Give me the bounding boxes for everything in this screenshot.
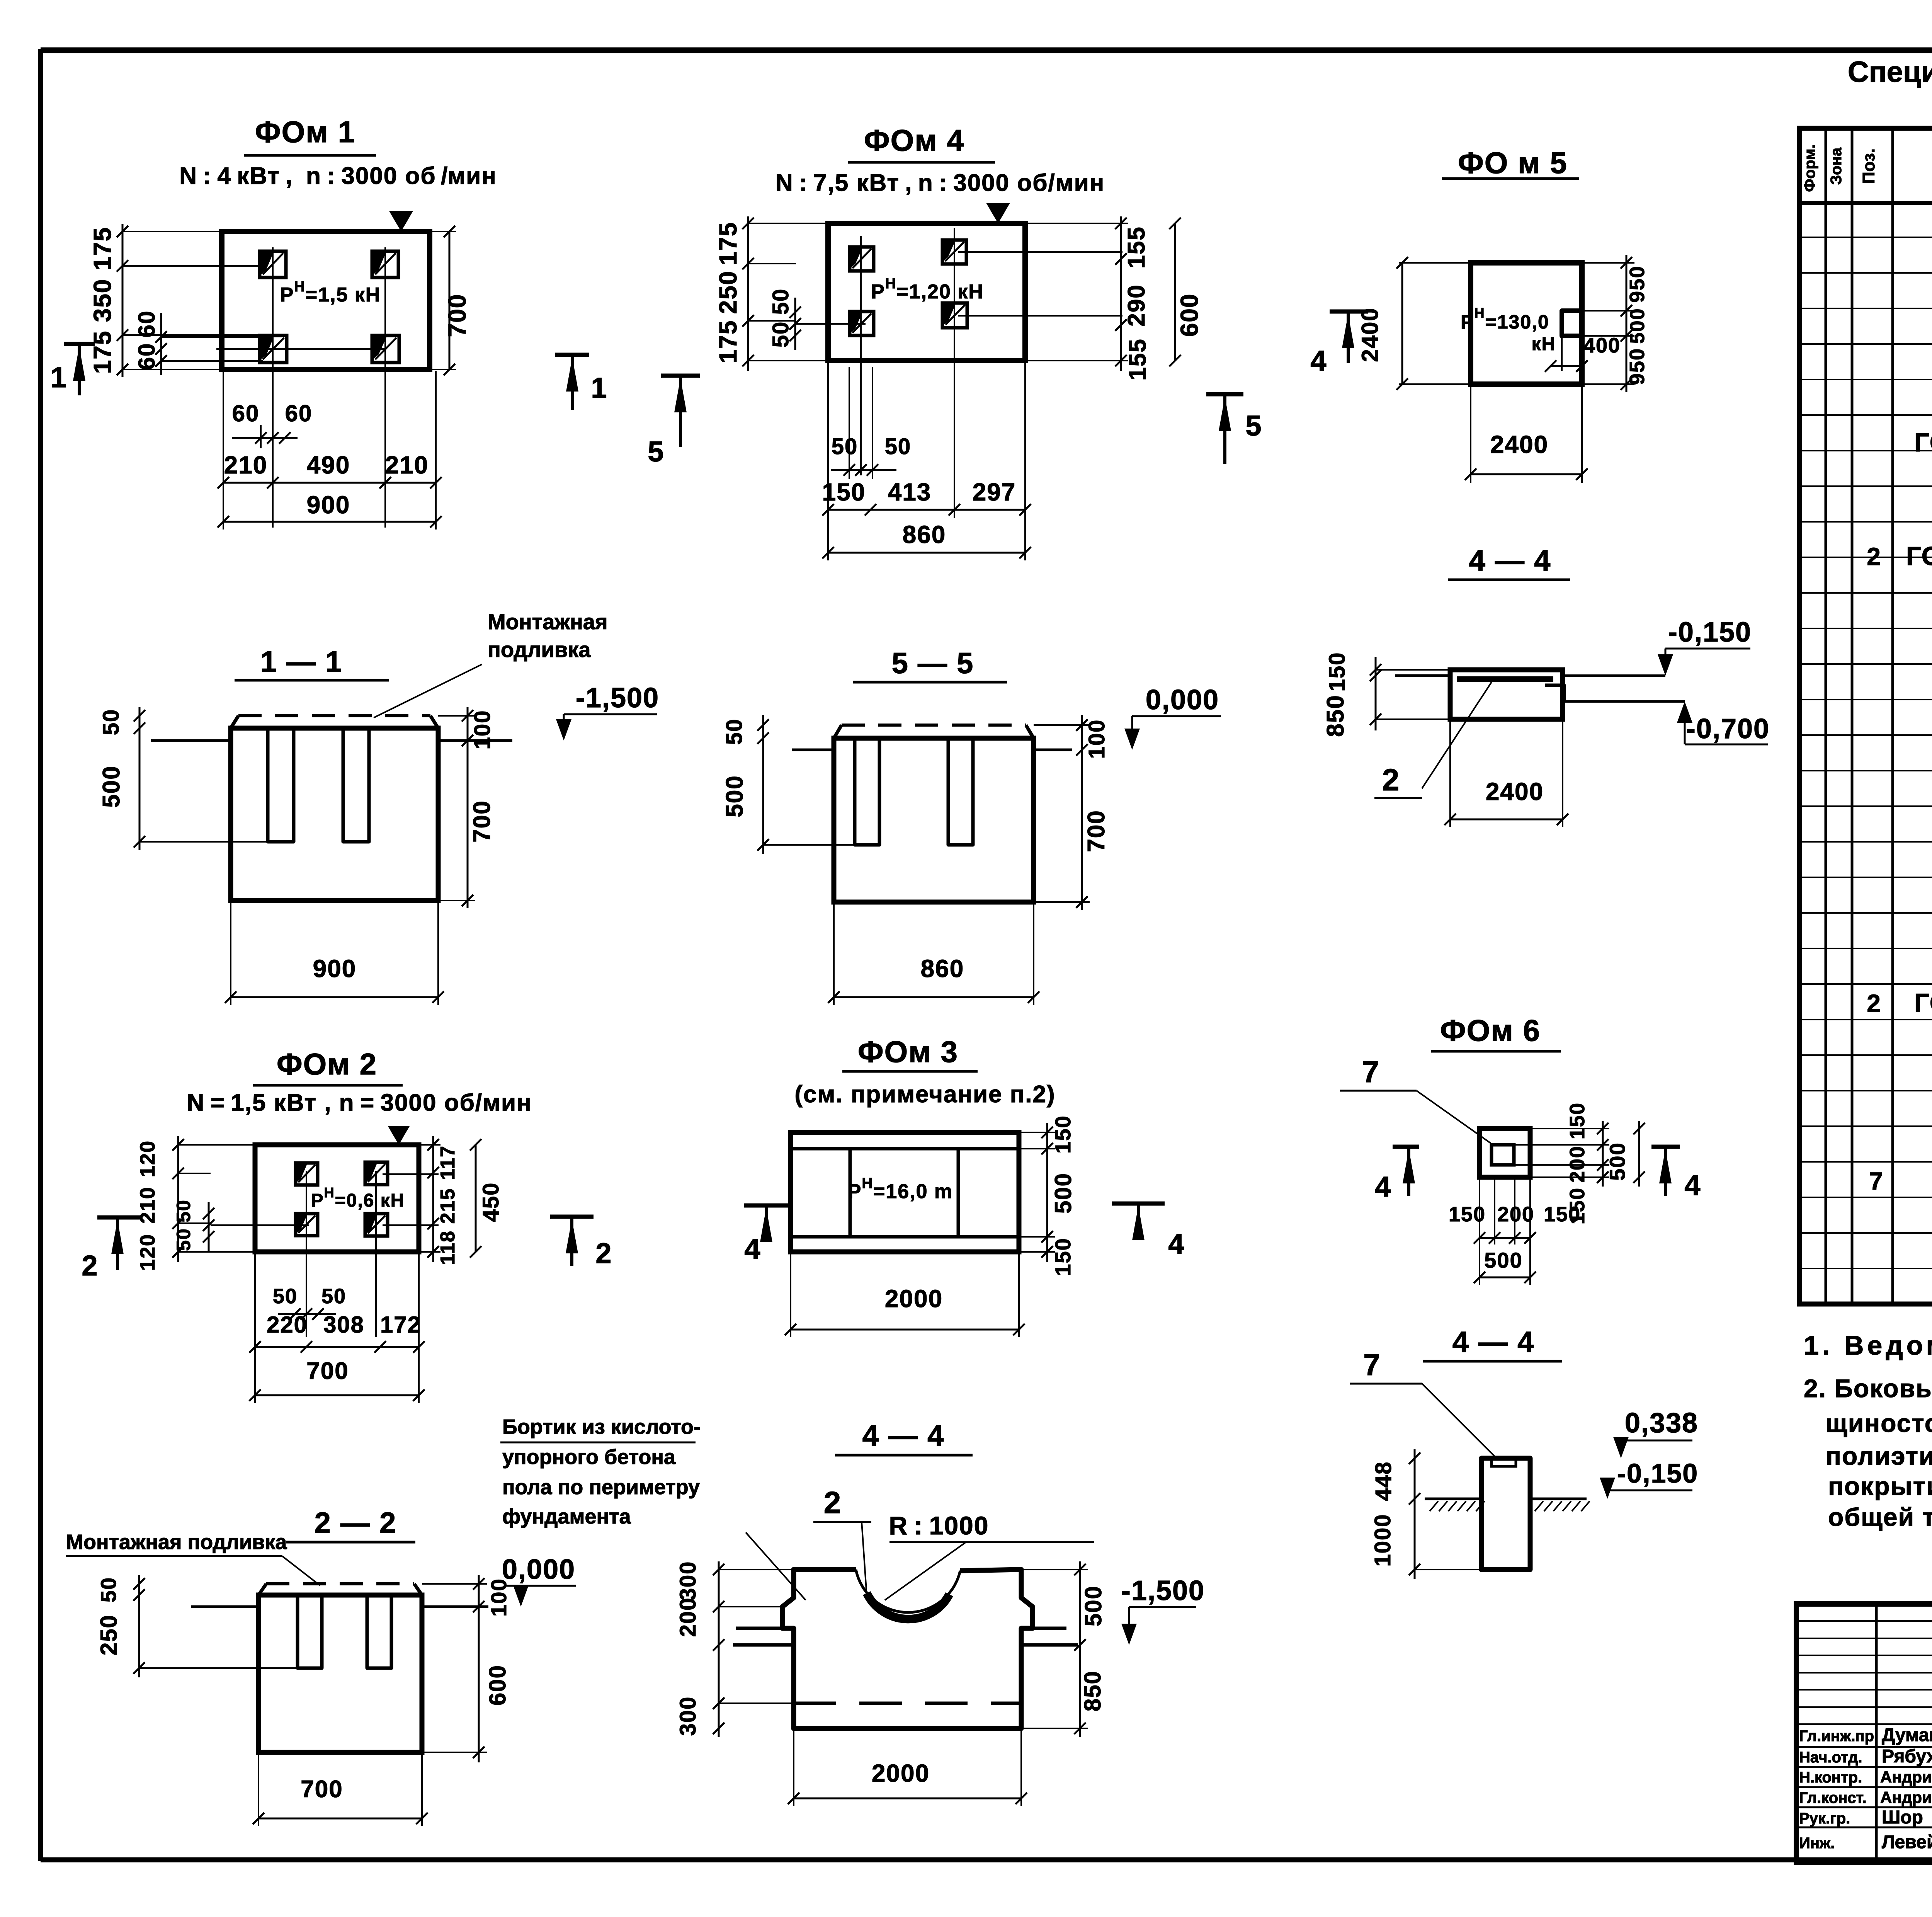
svg-text:175: 175 (714, 222, 742, 266)
right dimension 600 FOm4 (1169, 218, 1203, 366)
left dims 448/1000 FOm6 (1370, 1449, 1481, 1579)
plan FOm3 outline (791, 1132, 1019, 1252)
level triangle marker FOm4 (986, 203, 1010, 223)
section mark 1 right (555, 355, 608, 410)
left dims 50/500 section 5-5 (721, 715, 855, 854)
svg-text:500: 500 (1080, 1585, 1106, 1626)
svg-text:300: 300 (675, 1561, 701, 1601)
section mark 5 left (648, 376, 700, 468)
svg-text:Думан: Думан (1882, 1725, 1932, 1745)
plan FOm2 slab outline (255, 1145, 419, 1252)
svg-text:Шор: Шор (1882, 1807, 1923, 1828)
section mark 4 left FOm3 (744, 1205, 791, 1265)
svg-text:щиностойким покрытием на ос: щиностойким покрытием на основе хлорсуль… (1826, 1409, 1932, 1437)
anchor slots section 5-5 (855, 738, 973, 845)
svg-text:150: 150 (1051, 1115, 1075, 1153)
svg-text:850: 850 (1080, 1670, 1105, 1711)
svg-text:100: 100 (1084, 719, 1109, 759)
title section 5-5 (853, 647, 1007, 682)
spec rows FOm3 (1867, 466, 1932, 692)
svg-text:7: 7 (1363, 1348, 1381, 1382)
ground line section 5-5 (792, 749, 1072, 751)
right dims 100/600 section 2-2 (422, 1575, 511, 1762)
svg-text:60: 60 (134, 343, 160, 370)
left dimension chain FOm1 175/350/175 (88, 224, 263, 377)
left dimension 2400 FOm5 (1357, 257, 1471, 390)
right dims 150/200/150 FOm6 (1514, 1102, 1609, 1224)
svg-text:Бортик из кислото-: Бортик из кислото- (502, 1415, 701, 1439)
spec table grid (1799, 128, 1932, 1304)
notch on right edge FOm5 (1562, 311, 1582, 336)
svg-text:5: 5 (1245, 410, 1262, 442)
section mark 2 left (82, 1217, 142, 1282)
anchor slots section 2-2 (298, 1595, 391, 1668)
svg-text:N = 1,5 кВт , n = 3000 об/мин: N = 1,5 кВт , n = 3000 об/мин (187, 1090, 532, 1116)
svg-text:ФОм 3: ФОм 3 (858, 1035, 958, 1069)
section mark 1 left (50, 344, 95, 395)
svg-text:155: 155 (1123, 226, 1150, 268)
load label FOm1 (280, 279, 381, 306)
level mark 0.338 FOm6 (1613, 1408, 1698, 1458)
svg-text:150: 150 (1325, 652, 1350, 692)
ground hatch section FOm6 (1425, 1499, 1590, 1511)
title block signature rows texts (1799, 1725, 1932, 1852)
left dimension chain FOm4 175/250/175 (714, 216, 828, 371)
bottom chain 210/490/210 FOm1 (218, 451, 442, 489)
plan FOm1 slab outline (222, 232, 430, 369)
callout 7 FOm6 plan (1340, 1055, 1491, 1143)
svg-text:Н.контр.: Н.контр. (1799, 1769, 1862, 1786)
bottom dimension 50/50 FOm4 (831, 367, 911, 479)
svg-text:290: 290 (1123, 284, 1150, 326)
section mark 4 left of FOm5 (1310, 312, 1368, 377)
svg-text:покрытие - 4 слоя эмали ХСПЭ: покрытие - 4 слоя эмали ХСПЭ-Ж , (1828, 1472, 1932, 1500)
svg-text:2400: 2400 (1490, 431, 1548, 458)
left dims 50/500 section 1-1 (98, 707, 268, 850)
svg-text:150: 150 (1544, 1203, 1581, 1226)
svg-text:413: 413 (888, 478, 932, 506)
svg-text:2. Боковые поверхности фОм3: 2. Боковые поверхности фОм3 покрываются … (1804, 1374, 1932, 1403)
title FOm2 (187, 1047, 532, 1116)
svg-text:1: 1 (591, 372, 607, 404)
bottom dim 860 section 5-5 (828, 904, 1039, 1005)
svg-text:50: 50 (273, 1285, 298, 1308)
plan FOm5 slab outline (1471, 263, 1582, 384)
svg-text:2000: 2000 (885, 1285, 943, 1313)
svg-text:950: 950 (1626, 348, 1649, 385)
svg-text:1. Ведомость расхода стали: 1. Ведомость расхода стали дана на листе… (1804, 1330, 1932, 1360)
inner dimension 60/60 FOm1 left (134, 310, 263, 375)
level mark 0.000 section 5-5 (1124, 684, 1221, 750)
svg-text:155: 155 (1124, 338, 1151, 380)
right dimension 700 FOm1 (430, 226, 471, 375)
title FOm1 (179, 115, 497, 189)
svg-text:ФОм 2: ФОм 2 (277, 1047, 377, 1081)
ground line section 2-2 (191, 1605, 488, 1608)
svg-text:2: 2 (1867, 989, 1881, 1017)
left dims 50/250 section 2-2 (96, 1575, 298, 1677)
title FOm3 (794, 1035, 1055, 1108)
svg-text:Поз.: Поз. (1859, 148, 1878, 184)
svg-text:200: 200 (1566, 1146, 1589, 1183)
svg-text:2: 2 (1867, 543, 1881, 570)
svg-text:0,338: 0,338 (1625, 1408, 1698, 1439)
svg-text:5: 5 (648, 436, 664, 468)
note bortik iz kisloto-upornogo betona (500, 1415, 806, 1600)
right dimension chain FOm3 150/500/150 (1019, 1115, 1076, 1276)
svg-text:2000: 2000 (872, 1759, 930, 1787)
right dimension chain FOm2 117/215/118 (419, 1136, 459, 1265)
title FOm6 (1431, 1013, 1561, 1051)
svg-text:ФОм 6: ФОм 6 (1440, 1013, 1541, 1047)
spec table header texts (1801, 144, 1932, 192)
right dims 100/700 section 5-5 (1034, 715, 1110, 910)
title section 4-4 FOm5 (1448, 544, 1570, 580)
svg-text:60: 60 (134, 310, 160, 338)
svg-text:ФО м 5: ФО м 5 (1458, 146, 1568, 180)
svg-text:215: 215 (437, 1188, 459, 1224)
title block outer frame (1796, 1604, 1932, 1863)
svg-text:(см. примечание п.2): (см. примечание п.2) (794, 1081, 1055, 1108)
svg-text:175: 175 (88, 227, 116, 271)
bottom dimension 60/60 FOm1 (232, 400, 312, 448)
svg-text:Андриевская: Андриевская (1880, 1788, 1932, 1806)
FOm6 pier plan squares (1480, 1129, 1530, 1177)
svg-text:Форм.: Форм. (1801, 144, 1818, 192)
load label FOm3 (848, 1175, 953, 1203)
svg-text:450: 450 (478, 1182, 503, 1222)
level mark -1.500 section 1-1 (556, 683, 659, 741)
svg-text:-1,500: -1,500 (576, 683, 659, 713)
title section 1-1 (235, 645, 389, 680)
svg-text:50: 50 (173, 1199, 194, 1222)
svg-text:500: 500 (1050, 1173, 1076, 1214)
svg-text:4 — 4: 4 — 4 (1452, 1326, 1535, 1359)
section 5-5 foundation outline (834, 725, 1034, 902)
svg-text:N : 7,5 кВт , n : 3000 об/мин: N : 7,5 кВт , n : 3000 об/мин (776, 170, 1105, 196)
svg-text:50: 50 (173, 1228, 194, 1251)
label R=1000 (885, 1511, 1094, 1600)
svg-text:4 — 4: 4 — 4 (1469, 544, 1551, 577)
svg-text:600: 600 (485, 1665, 510, 1706)
svg-text:ФОм 4: ФОм 4 (864, 123, 964, 157)
svg-text:Левейка: Левейка (1882, 1832, 1932, 1852)
left dimension chain FOm2 120/210/120 (136, 1136, 255, 1271)
bottom dim 2000 FOm3 (785, 1254, 1025, 1337)
svg-text:250: 250 (96, 1614, 122, 1655)
spec rows FOm5 (1867, 905, 1932, 1078)
left dims 150/850 section 4-4 FOm5 (1322, 652, 1450, 737)
section 4-4 slab outline (1450, 670, 1564, 719)
svg-text:4 — 4: 4 — 4 (862, 1419, 945, 1452)
section mark 2 right (550, 1217, 612, 1269)
callout 7 section 4-4 FOm6 (1350, 1348, 1496, 1458)
section 2-2 foundation outline (259, 1584, 422, 1752)
svg-text:-0,700: -0,700 (1686, 713, 1770, 744)
svg-text:0,000: 0,000 (1146, 684, 1219, 715)
svg-text:60: 60 (285, 400, 313, 426)
pier section FOm6 (1481, 1458, 1530, 1570)
anchor slots section 1-1 (268, 728, 369, 842)
svg-text:200: 200 (675, 1597, 701, 1637)
svg-text:117: 117 (437, 1145, 459, 1180)
bottom dimension 700 FOm2 (249, 1254, 425, 1403)
load label FOm4 (871, 276, 984, 303)
level mark -0.150 (1658, 617, 1752, 676)
svg-text:4: 4 (1168, 1228, 1185, 1260)
note montazhnaya podlivka 2-2 (66, 1531, 320, 1585)
section 1-1 foundation outline (231, 716, 438, 901)
svg-text:700: 700 (469, 800, 495, 842)
title FOm5 (1442, 146, 1579, 180)
bottom dim 2400 section 4-4 FOm5 (1444, 721, 1568, 827)
svg-text:50: 50 (885, 434, 912, 459)
spec table heading (1848, 56, 1932, 127)
bottom chain 150/413/297 FOm4 (822, 478, 1031, 516)
level triangle marker FOm2 (388, 1126, 410, 1145)
svg-text:кН: кН (1532, 334, 1556, 354)
svg-text:900: 900 (313, 955, 357, 982)
svg-text:50: 50 (832, 434, 858, 459)
bottom dim 700 section 2-2 (253, 1755, 428, 1826)
svg-text:60: 60 (232, 400, 260, 426)
svg-text:100: 100 (470, 710, 495, 750)
svg-text:150: 150 (1566, 1102, 1589, 1139)
svg-text:490: 490 (307, 451, 350, 479)
svg-text:Инж.: Инж. (1799, 1835, 1835, 1852)
svg-text:50: 50 (99, 709, 124, 735)
section mark 4 right FOm6 (1651, 1147, 1701, 1201)
inner dimension 50/50 FOm2 (173, 1199, 214, 1252)
note 1 vedomost (1804, 1330, 1932, 1360)
svg-text:50: 50 (722, 718, 747, 745)
bottom dimension 860 FOm4 (822, 363, 1031, 560)
callout 2 section 4-4 FOm5 (1374, 682, 1492, 798)
svg-text:700: 700 (1083, 810, 1110, 852)
svg-text:Рук.гр.: Рук.гр. (1799, 1810, 1850, 1827)
svg-text:R : 1000: R : 1000 (889, 1511, 989, 1540)
title block left columns (1796, 1604, 1932, 1863)
level mark -0.700 (1677, 701, 1770, 744)
svg-text:700: 700 (443, 294, 471, 337)
svg-text:Монтажная: Монтажная (488, 609, 608, 634)
svg-text:пола по периметру: пола по периметру (502, 1476, 700, 1499)
ground lines section 4-4 bottom (733, 1628, 1078, 1645)
svg-text:700: 700 (301, 1776, 343, 1803)
svg-text:ГОСТ 7473-76: ГОСТ 7473-76 (1914, 428, 1932, 457)
svg-text:5 — 5: 5 — 5 (892, 647, 974, 680)
svg-text:200: 200 (1497, 1203, 1534, 1226)
right dim 500 FOm6 (1605, 1121, 1645, 1187)
load label FOm5 (1461, 305, 1556, 354)
svg-text:общей толщиной 150 МКМ .: общей толщиной 150 МКМ . (1828, 1503, 1932, 1531)
svg-text:Нач.отд.: Нач.отд. (1799, 1749, 1862, 1766)
svg-text:210: 210 (224, 451, 268, 479)
svg-text:308: 308 (323, 1312, 364, 1338)
svg-text:Зона: Зона (1828, 147, 1845, 185)
bottom chain 220/308/172 FOm2 (249, 1312, 425, 1353)
right dimension 450 FOm2 (470, 1139, 503, 1258)
svg-text:950: 950 (1626, 266, 1649, 303)
svg-text:150: 150 (1051, 1238, 1075, 1276)
svg-text:700: 700 (306, 1358, 349, 1384)
bottom dimension 2400 FOm5 (1465, 386, 1588, 483)
bottom dims 150/200/150 FOm6 (1449, 1179, 1581, 1245)
section mark 4 right FOm3 (1112, 1204, 1185, 1260)
svg-text:350: 350 (88, 279, 116, 322)
svg-text:N : 4 кВт , n : 3000 об /мин: N : 4 кВт , n : 3000 об /мин (179, 163, 497, 189)
level mark 0.000 section 2-2 (502, 1554, 576, 1607)
svg-text:подливка: подливка (488, 637, 591, 662)
svg-text:448: 448 (1371, 1461, 1396, 1501)
svg-text:500: 500 (721, 775, 748, 817)
axis lines FOm2 (211, 1171, 439, 1337)
level mark -1.500 bottom (1121, 1575, 1205, 1645)
right dimension chain FOm4 155/290/155 (1025, 216, 1151, 381)
svg-text:100: 100 (486, 1578, 511, 1616)
spec rows FOm6 (1869, 1129, 1932, 1301)
anchor bolt squares FOm4 (850, 240, 967, 335)
svg-text:500: 500 (1605, 1142, 1629, 1180)
svg-text:175: 175 (88, 330, 116, 374)
svg-text:50: 50 (96, 1577, 121, 1602)
title section 2-2 (286, 1507, 415, 1542)
right dims 100/700 section 1-1 (438, 707, 495, 908)
svg-text:2 — 2: 2 — 2 (315, 1507, 397, 1539)
title section 4-4 FOm6 (1423, 1326, 1562, 1361)
anchor bolt squares FOm1 (260, 251, 399, 363)
svg-text:Андриевская: Андриевская (1880, 1768, 1932, 1786)
svg-text:0,000: 0,000 (502, 1554, 575, 1585)
left dims 300/200/300 section 4-4 bottom (675, 1561, 794, 1737)
svg-text:4: 4 (1684, 1169, 1701, 1201)
anchor bolt squares FOm2 (296, 1162, 388, 1236)
svg-text:50: 50 (321, 1285, 346, 1308)
svg-text:Гл.инж.пр.: Гл.инж.пр. (1799, 1728, 1878, 1745)
ground lines section 4-4 FOm5 (1395, 676, 1685, 701)
svg-text:полиэтилена ХСПЭ: грунт-1слой: полиэтилена ХСПЭ: грунт-1слой ХСПЭ-Ж, (1826, 1442, 1932, 1470)
svg-text:118: 118 (437, 1230, 459, 1265)
svg-text:1 — 1: 1 — 1 (260, 645, 343, 678)
svg-text:7: 7 (1362, 1055, 1379, 1089)
svg-text:1000: 1000 (1370, 1514, 1395, 1566)
axis lines FOm1 (216, 247, 386, 528)
svg-text:900: 900 (307, 491, 350, 519)
right dims 500/850 section 4-4 bottom (1021, 1561, 1106, 1737)
svg-text:1: 1 (50, 361, 67, 393)
svg-text:Гл.конст.: Гл.конст. (1799, 1789, 1867, 1806)
svg-text:-0,150: -0,150 (1617, 1458, 1698, 1488)
svg-text:2: 2 (82, 1250, 98, 1282)
svg-text:850: 850 (1322, 695, 1349, 737)
svg-text:500: 500 (1484, 1248, 1522, 1272)
svg-text:500: 500 (98, 765, 125, 807)
bottom dimension 50/50 FOm2 (273, 1285, 346, 1320)
svg-text:120: 120 (136, 1140, 159, 1177)
load label FOm2 (311, 1185, 405, 1211)
svg-text:-1,500: -1,500 (1121, 1575, 1205, 1606)
section 4-4 bottom outline with curved recess (782, 1570, 1032, 1728)
svg-text:Спецификация монолитной же: Спецификация монолитной железобетонной (1848, 56, 1932, 89)
svg-text:300: 300 (675, 1696, 701, 1736)
ground line section 1-1 (151, 739, 512, 742)
callout 2 section 4-4 bottom (813, 1485, 871, 1595)
section mark 5 right (1206, 394, 1262, 464)
svg-text:-0,150: -0,150 (1668, 617, 1752, 648)
svg-text:2: 2 (1382, 763, 1400, 797)
svg-text:220: 220 (267, 1312, 308, 1338)
svg-text:400: 400 (1583, 334, 1621, 357)
svg-text:ФОм 1: ФОм 1 (255, 115, 355, 149)
plan FOm4 slab outline (828, 223, 1025, 361)
svg-text:297: 297 (973, 478, 1016, 506)
svg-text:Монтажная подливка: Монтажная подливка (66, 1531, 287, 1554)
svg-text:860: 860 (903, 521, 946, 548)
svg-text:175: 175 (714, 320, 742, 364)
bottom dimension 900 FOm1 (218, 371, 442, 529)
svg-text:210: 210 (385, 451, 429, 479)
bottom dim 500 FOm6 (1474, 1179, 1536, 1285)
svg-text:2400: 2400 (1357, 307, 1383, 362)
svg-text:2400: 2400 (1486, 778, 1544, 805)
svg-text:172: 172 (380, 1312, 421, 1338)
svg-text:2: 2 (595, 1237, 612, 1269)
spec rows FOm2 (1914, 347, 1932, 457)
title section 4-4 bottom (835, 1419, 973, 1455)
note montazhnaya podlivka (374, 609, 608, 718)
right dimension chain FOm5 950/500/950 (1582, 255, 1649, 392)
svg-text:4: 4 (1310, 345, 1327, 377)
svg-text:фундамента: фундамента (502, 1505, 631, 1528)
title FOm4 (776, 123, 1105, 196)
svg-text:7: 7 (1869, 1167, 1884, 1195)
svg-text:упорного бетона: упорного бетона (502, 1445, 676, 1469)
level triangle marker FOm1 (389, 211, 413, 232)
svg-text:ГОСТ 8478-81: ГОСТ 8478-81 (1906, 541, 1932, 571)
svg-text:4: 4 (1375, 1171, 1391, 1203)
dimension 400 notch FOm5 (1545, 334, 1621, 372)
svg-text:120: 120 (136, 1234, 159, 1271)
bottom dim 900 section 1-1 (225, 902, 444, 1005)
svg-text:50: 50 (768, 321, 793, 348)
svg-text:4: 4 (744, 1233, 761, 1265)
svg-text:250: 250 (714, 271, 742, 314)
svg-text:860: 860 (921, 955, 964, 982)
svg-text:50: 50 (768, 288, 793, 315)
svg-text:500: 500 (1626, 308, 1649, 344)
level mark -0.150 FOm6 (1600, 1458, 1698, 1499)
bottom dim 2000 section 4-4 bottom (788, 1731, 1027, 1806)
section mark 4 left FOm6 (1375, 1147, 1419, 1203)
inner dimension 50/50 FOm4 (768, 288, 801, 350)
axis lines FOm4 (796, 228, 1122, 518)
note 2 bokovye poverhnosti (1804, 1374, 1932, 1531)
svg-text:600: 600 (1175, 293, 1203, 337)
svg-text:2: 2 (824, 1485, 842, 1520)
svg-text:ГОСТ 8478-81: ГОСТ 8478-81 (1914, 988, 1932, 1018)
svg-text:Рябуха: Рябуха (1882, 1746, 1932, 1767)
